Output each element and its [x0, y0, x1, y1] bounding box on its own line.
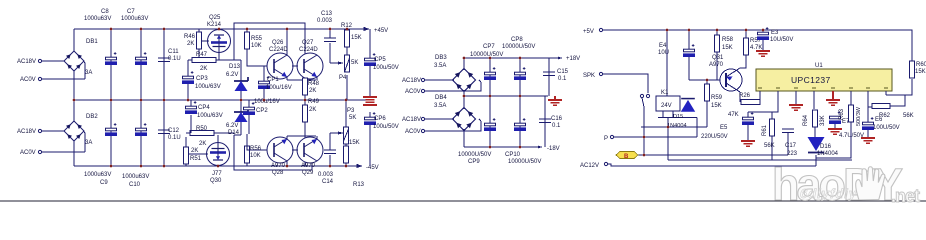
svg-text:10K: 10K — [250, 153, 261, 159]
svg-text:C17: C17 — [785, 143, 797, 149]
svg-text:D16: D16 — [820, 144, 832, 150]
svg-text:R26: R26 — [739, 93, 751, 99]
svg-text:AC12V: AC12V — [580, 163, 599, 169]
svg-text:C14: C14 — [322, 179, 334, 185]
svg-text:15K: 15K — [349, 140, 360, 146]
svg-text:15K: 15K — [915, 69, 926, 75]
svg-text:SPK: SPK — [583, 73, 595, 79]
svg-text:C16: C16 — [551, 116, 563, 122]
svg-text:1000u63V: 1000u63V — [84, 172, 111, 178]
svg-text:2K: 2K — [187, 41, 194, 47]
svg-text:100u/16V: 100u/16V — [266, 85, 292, 91]
svg-text:0.1: 0.1 — [552, 123, 561, 129]
svg-text:-18V: -18V — [547, 146, 560, 152]
svg-text:3.5A: 3.5A — [434, 103, 446, 109]
svg-text:0.1U: 0.1U — [168, 135, 181, 141]
svg-text:DB1: DB1 — [86, 39, 98, 45]
svg-text:R56: R56 — [250, 146, 262, 152]
svg-text:DB3: DB3 — [435, 55, 447, 61]
svg-text:47K: 47K — [728, 112, 739, 118]
svg-text:0.003: 0.003 — [317, 18, 333, 24]
svg-text:2K: 2K — [309, 107, 316, 113]
svg-text:220U/50V: 220U/50V — [701, 134, 728, 140]
svg-text:Q28: Q28 — [272, 170, 284, 176]
svg-text:3.5A: 3.5A — [434, 63, 446, 69]
svg-text:C11: C11 — [168, 49, 179, 55]
svg-text:C15: C15 — [557, 69, 569, 75]
svg-text:UPC1237: UPC1237 — [791, 75, 831, 85]
svg-text:2K: 2K — [191, 148, 198, 154]
svg-text:+45V: +45V — [374, 28, 388, 34]
svg-text:100u/63V: 100u/63V — [195, 84, 221, 90]
svg-text:5K: 5K — [349, 115, 356, 121]
svg-text:10000U/50V: 10000U/50V — [508, 159, 541, 165]
svg-text:R61: R61 — [762, 124, 768, 136]
svg-text:CP2: CP2 — [256, 108, 268, 114]
svg-text:D15: D15 — [673, 114, 683, 120]
svg-text:2K: 2K — [309, 88, 316, 94]
svg-text:CP10: CP10 — [505, 152, 521, 158]
svg-text:CP1: CP1 — [267, 77, 279, 83]
svg-text:10U/50V: 10U/50V — [770, 37, 793, 43]
svg-text:E3: E3 — [771, 30, 779, 36]
svg-text:CP4: CP4 — [198, 105, 210, 111]
svg-text:+5V: +5V — [583, 29, 594, 35]
svg-text:AC0V: AC0V — [405, 89, 421, 95]
svg-text:E6: E6 — [875, 117, 883, 123]
svg-text:Q30: Q30 — [210, 178, 222, 184]
svg-text:56K: 56K — [903, 113, 914, 119]
svg-text:P: P — [604, 136, 608, 142]
svg-text:100u/50V: 100u/50V — [373, 124, 399, 130]
svg-text:100U/50V: 100U/50V — [873, 125, 900, 131]
svg-text:.net: .net — [891, 186, 920, 206]
svg-text:CP3: CP3 — [196, 76, 208, 82]
svg-text:AC0V: AC0V — [20, 150, 36, 156]
svg-text:R55: R55 — [251, 36, 263, 42]
svg-text:R13: R13 — [353, 182, 365, 188]
svg-text:C8: C8 — [101, 9, 109, 15]
svg-text:2K: 2K — [200, 66, 207, 72]
svg-text:AC18V: AC18V — [402, 117, 421, 123]
svg-text:223: 223 — [787, 151, 798, 157]
svg-text:K214: K214 — [207, 22, 222, 28]
svg-text:100u/50V: 100u/50V — [373, 65, 399, 71]
svg-text:AC0V: AC0V — [405, 129, 421, 135]
svg-text:1000u63V: 1000u63V — [121, 16, 148, 22]
svg-text:6.2V: 6.2V — [226, 72, 238, 78]
svg-text:D14: D14 — [228, 130, 240, 136]
svg-text:0.1: 0.1 — [558, 76, 567, 82]
svg-text:R63: R63 — [839, 108, 845, 120]
svg-text:3A: 3A — [85, 140, 92, 146]
svg-text:R60: R60 — [916, 62, 926, 68]
svg-text:Q29: Q29 — [302, 170, 314, 176]
svg-text:CP7: CP7 — [483, 44, 495, 50]
svg-text:56K: 56K — [764, 143, 775, 149]
svg-text:1000u63V: 1000u63V — [122, 174, 149, 180]
svg-text:C224D: C224D — [269, 47, 288, 53]
svg-text:A970: A970 — [271, 163, 286, 169]
svg-text:CP8: CP8 — [511, 37, 523, 43]
svg-text:10000U/50V: 10000U/50V — [502, 44, 535, 50]
svg-text:AC18V: AC18V — [17, 59, 36, 65]
svg-text:24V: 24V — [661, 103, 672, 109]
svg-text:C12: C12 — [168, 128, 180, 134]
svg-text:5K: 5K — [351, 60, 358, 66]
svg-text:6.2V: 6.2V — [226, 123, 238, 129]
svg-text:1N4004: 1N4004 — [817, 151, 839, 157]
svg-text:Q26: Q26 — [272, 40, 284, 46]
svg-text:15K: 15K — [722, 45, 733, 51]
svg-text:C10: C10 — [129, 182, 141, 188]
svg-text:0.003: 0.003 — [318, 172, 334, 178]
svg-text:DB4: DB4 — [435, 95, 447, 101]
svg-text:R64: R64 — [803, 114, 809, 126]
svg-text:C224D: C224D — [299, 47, 318, 53]
svg-text:Q27: Q27 — [302, 40, 314, 46]
svg-text:AC18V: AC18V — [402, 78, 421, 84]
svg-text:100u/63V: 100u/63V — [197, 113, 223, 119]
svg-text:CP5: CP5 — [374, 57, 386, 63]
svg-text:C13: C13 — [321, 11, 333, 17]
svg-text:R46: R46 — [184, 34, 196, 40]
svg-text:A970: A970 — [709, 62, 724, 68]
svg-text:500/3W: 500/3W — [856, 106, 862, 126]
svg-text:100u/16V: 100u/16V — [254, 99, 280, 105]
svg-text:R58: R58 — [722, 37, 734, 43]
svg-text:+18V: +18V — [566, 56, 580, 62]
svg-text:2K: 2K — [199, 141, 206, 147]
svg-text:10000U/50V: 10000U/50V — [458, 152, 491, 158]
svg-text:E4: E4 — [659, 43, 667, 49]
svg-text:15K: 15K — [711, 103, 722, 109]
svg-text:10K: 10K — [251, 43, 262, 49]
svg-text:C7: C7 — [127, 9, 135, 15]
svg-text:CP6: CP6 — [374, 116, 386, 122]
svg-text:B: B — [624, 154, 629, 160]
svg-text:R59: R59 — [711, 95, 723, 101]
svg-text:1000u63V: 1000u63V — [84, 16, 111, 22]
svg-text:-45V: -45V — [366, 165, 379, 171]
svg-text:Q25: Q25 — [209, 15, 221, 21]
svg-text:A970: A970 — [301, 163, 316, 169]
svg-text:D13: D13 — [229, 64, 241, 70]
svg-text:15K: 15K — [351, 35, 362, 41]
svg-text:AC0V: AC0V — [20, 77, 36, 83]
svg-text:DB2: DB2 — [86, 114, 98, 120]
svg-text:K1: K1 — [661, 90, 669, 96]
svg-text:AC18V: AC18V — [17, 129, 36, 135]
svg-text:P3: P3 — [347, 108, 355, 114]
svg-text:4.7K: 4.7K — [750, 45, 762, 51]
svg-text:P4: P4 — [339, 75, 347, 81]
svg-text:33K: 33K — [820, 115, 826, 126]
svg-text:R51: R51 — [190, 156, 202, 162]
svg-text:C9: C9 — [100, 180, 108, 186]
svg-text:R48: R48 — [308, 81, 320, 87]
svg-text:CP9: CP9 — [468, 159, 480, 165]
svg-text:E5: E5 — [720, 125, 728, 131]
svg-text:0.1U: 0.1U — [168, 56, 181, 62]
svg-text:10000U/50V: 10000U/50V — [470, 52, 503, 58]
svg-text:1N4004: 1N4004 — [667, 123, 687, 129]
svg-text:U1: U1 — [815, 63, 823, 69]
svg-text:R49: R49 — [308, 99, 320, 105]
svg-text:3A: 3A — [85, 70, 92, 76]
svg-text:J77: J77 — [212, 171, 222, 177]
svg-text:Q31: Q31 — [712, 55, 724, 61]
svg-text:4.7U/50V: 4.7U/50V — [839, 133, 864, 139]
